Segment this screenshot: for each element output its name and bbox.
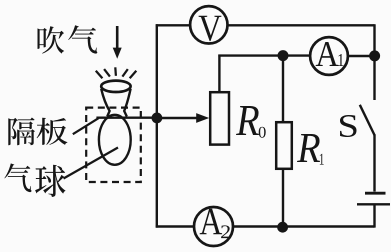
junction node balloon-slider [152,113,163,124]
ammeter A2 subscript 2 [221,225,230,238]
battery negative plate [357,203,390,205]
ammeter A1 subscript 1 [338,54,343,66]
resistor R1 body [276,122,292,169]
label plate 板 [37,118,68,145]
switch S blade [360,105,375,136]
label gas 气 [4,163,31,192]
battery positive plate [365,192,386,195]
voltmeter V1 letter V [199,16,222,41]
resistor R0 slider arrow [157,113,209,123]
wire R1 top [282,56,284,122]
label ball 球 [35,165,65,197]
label blow 吹 [37,26,64,53]
voltmeter V1 circle [190,6,227,43]
air spray lines [96,67,137,78]
wire right rail upper [373,24,375,100]
resistor R0 label R [236,106,259,135]
wire R0 top stub [218,55,220,93]
ammeter A2 circle [194,207,233,246]
wire left rail vertical [156,24,158,227]
wire top horizontal right of V [229,24,375,26]
wire R0-top branch horizontal [218,54,309,56]
balloon outline [99,115,131,165]
resistor R1 label subscript 1 [320,154,324,165]
wire bottom rail right [234,225,375,227]
funnel mouth ellipse [101,81,130,92]
junction node right rail [369,50,380,61]
label partition 隔 [8,117,35,145]
label air 气 [68,25,97,53]
resistor R1 label R [297,134,320,162]
ammeter A1 letter A [316,42,339,66]
funnel neck sides [101,89,130,117]
ammeter A1 circle [310,37,348,75]
resistor R0 body [210,92,229,144]
wire switch to battery [373,135,375,192]
partition rod wire [96,116,153,118]
wire R1 bottom [282,169,284,227]
ammeter A2 letter A [200,209,222,234]
dashed enclosure box [86,108,141,182]
blow-air down arrow [113,26,122,59]
junction node R1 bottom [277,222,288,233]
resistor R0 label subscript 0 [259,127,266,138]
wire top-left horizontal [156,24,189,26]
switch S label [340,115,357,137]
wire battery to bottom rail [373,204,375,227]
leader line partition label [73,118,99,134]
leader line balloon label [64,148,119,179]
junction node R1 top [278,50,289,61]
wire bottom rail left [156,225,193,227]
wire A1 to right rail [348,55,374,57]
